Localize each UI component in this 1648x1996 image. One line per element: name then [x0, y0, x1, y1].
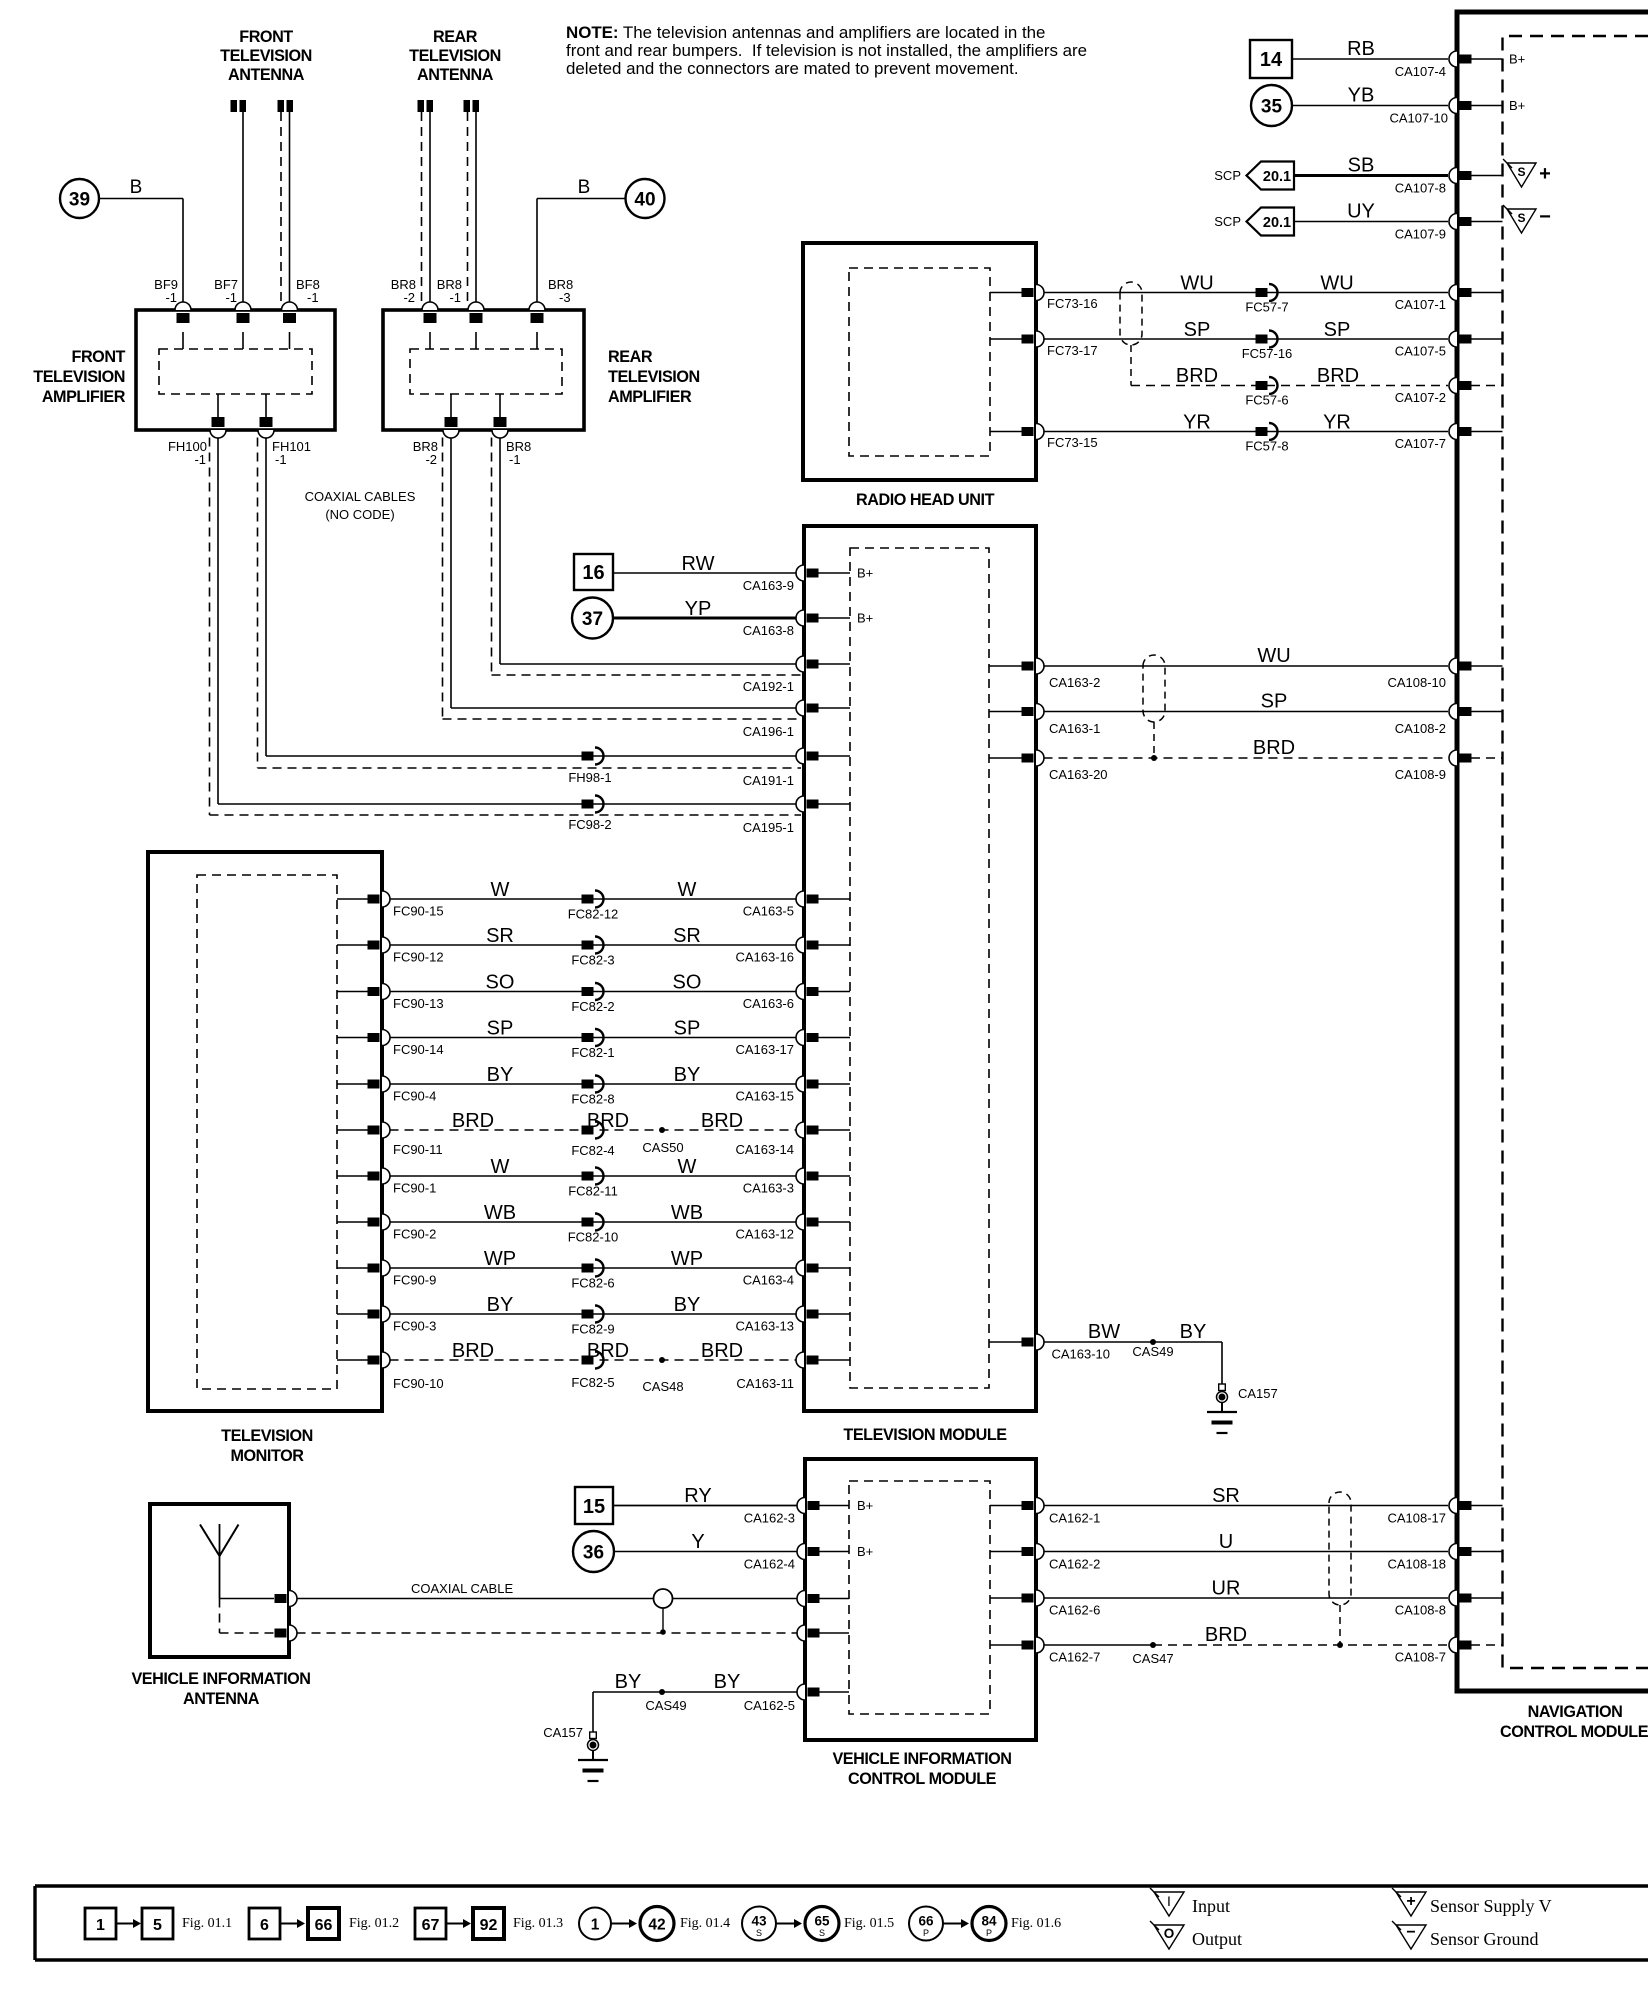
- source square 15: [575, 1487, 613, 1524]
- legend arrow 2: [280, 1923, 298, 1925]
- svg-text:CA163-4: CA163-4: [743, 1273, 794, 1288]
- svg-text:P: P: [923, 1928, 929, 1938]
- wire UR to nav: [1044, 1597, 1449, 1599]
- wire BRD FC90-11 to CA163-14: [390, 1129, 797, 1131]
- svg-text:CA162-7: CA162-7: [1049, 1650, 1100, 1665]
- pin CA196-1: [796, 700, 804, 716]
- connector FC82-8: [582, 1080, 594, 1089]
- pin CA163-12: [796, 1214, 804, 1230]
- svg-text:BRD: BRD: [1317, 365, 1359, 387]
- svg-text:RB: RB: [1347, 38, 1375, 60]
- pin FC90-1: [337, 1175, 369, 1177]
- pin CA163-8: [796, 610, 804, 626]
- svg-text:WB: WB: [671, 1202, 703, 1224]
- pin BR8-2 top: [422, 302, 438, 310]
- legend circle 42: [640, 1907, 674, 1941]
- svg-text:B: B: [130, 177, 143, 198]
- legend circle 66 P: [909, 1907, 943, 1941]
- svg-text:WU: WU: [1320, 273, 1353, 295]
- source circle 36: [573, 1531, 614, 1572]
- pin FC90-4: [337, 1083, 369, 1085]
- svg-text:SP: SP: [1184, 319, 1211, 341]
- wire RW: [613, 572, 797, 574]
- svg-text:CA108-2: CA108-2: [1395, 721, 1446, 736]
- svg-text:CONTROL MODULE: CONTROL MODULE: [1500, 1723, 1648, 1741]
- svg-text:CA163-15: CA163-15: [735, 1089, 794, 1104]
- navigation pin at y=175.5: [1449, 168, 1457, 184]
- svg-text:BRD: BRD: [452, 1340, 494, 1362]
- svg-text:BRD: BRD: [1205, 1624, 1247, 1646]
- svg-text:5: 5: [153, 1917, 162, 1934]
- svg-text:(NO CODE): (NO CODE): [325, 507, 394, 522]
- svg-text:I: I: [1167, 1893, 1171, 1909]
- connector FC82-9: [582, 1310, 594, 1319]
- svg-text:AMPLIFIER: AMPLIFIER: [42, 388, 126, 406]
- svg-text:CA108-7: CA108-7: [1395, 1650, 1446, 1665]
- navigation inner dashed box: [1503, 36, 1648, 1668]
- wire coax shield via (dashed): [219, 1599, 221, 1634]
- connector FC82-10: [582, 1218, 594, 1227]
- wire Y: [614, 1551, 797, 1553]
- wire rear antenna coax 2 center: [475, 112, 477, 303]
- svg-text:37: 37: [582, 609, 603, 630]
- svg-text:BRD: BRD: [701, 1110, 743, 1132]
- antenna symbol: [219, 1524, 221, 1599]
- pin CA162-4: [797, 1544, 805, 1560]
- svg-text:CA163-2: CA163-2: [1049, 675, 1100, 690]
- svg-text:FC90-2: FC90-2: [393, 1227, 436, 1242]
- svg-text:S: S: [819, 1928, 825, 1938]
- svg-text:CA163-1: CA163-1: [1049, 721, 1100, 736]
- svg-text:FC90-9: FC90-9: [393, 1273, 436, 1288]
- wire W FC90-1 to CA163-3: [390, 1175, 797, 1177]
- wire SP to nav: [1044, 711, 1449, 713]
- shield vicm twisted pair: [1329, 1492, 1351, 1605]
- svg-text:NAVIGATION: NAVIGATION: [1528, 1703, 1623, 1721]
- svg-text:-1: -1: [275, 452, 287, 467]
- source circle 35: [1251, 85, 1292, 126]
- legend square 1: [85, 1908, 116, 1939]
- pin vicm coax center: [797, 1591, 805, 1607]
- source square 14: [1250, 40, 1292, 78]
- wire B from 40 to BR8-3: [537, 198, 626, 200]
- svg-text:MONITOR: MONITOR: [231, 1447, 305, 1465]
- wire UY: [1294, 221, 1448, 223]
- pin CA195-1: [796, 796, 804, 812]
- svg-text:CAS50: CAS50: [642, 1140, 683, 1155]
- svg-text:WP: WP: [671, 1248, 703, 1270]
- pin CA162-3: [797, 1498, 805, 1514]
- vehicle information control module box: [805, 1459, 1036, 1740]
- svg-text:+: +: [1406, 1893, 1415, 1910]
- svg-text:ANTENNA: ANTENNA: [417, 66, 494, 84]
- svg-text:FC90-4: FC90-4: [393, 1089, 436, 1104]
- svg-text:FC82-1: FC82-1: [571, 1045, 614, 1060]
- svg-text:43: 43: [751, 1914, 767, 1929]
- svg-text:92: 92: [480, 1917, 498, 1934]
- svg-text:SP: SP: [487, 1018, 514, 1040]
- svg-text:15: 15: [583, 1496, 605, 1518]
- connector FC82-11: [582, 1172, 594, 1181]
- pin BR8-1 top: [468, 302, 484, 310]
- svg-text:TELEVISION: TELEVISION: [221, 1427, 313, 1445]
- svg-text:BY: BY: [674, 1294, 701, 1316]
- svg-text:CA163-20: CA163-20: [1049, 767, 1108, 782]
- wire RB: [1292, 58, 1448, 60]
- pin CA163-2: [989, 665, 1022, 667]
- connector FC82-1: [582, 1033, 594, 1042]
- svg-text:W: W: [678, 1156, 697, 1178]
- label front television antenna: [220, 28, 312, 84]
- svg-text:-1: -1: [194, 452, 206, 467]
- svg-text:FC82-8: FC82-8: [571, 1092, 614, 1107]
- pin BF7-1: [235, 302, 251, 310]
- svg-text:W: W: [678, 879, 697, 901]
- pin CA163-9: [796, 565, 804, 581]
- svg-text:B: B: [578, 177, 591, 198]
- wire coaxial cable center: [297, 1598, 797, 1600]
- navigation pin at y=711.5: [1449, 704, 1457, 720]
- svg-text:6: 6: [260, 1917, 269, 1934]
- svg-text:BRD: BRD: [1253, 737, 1295, 759]
- pin CA163-6: [796, 984, 804, 1000]
- svg-text:TELEVISION MODULE: TELEVISION MODULE: [843, 1426, 1007, 1444]
- svg-text:B+: B+: [857, 1498, 873, 1513]
- scp arrow 20.1 first: [1247, 162, 1295, 190]
- television module inner dashed box: [850, 548, 989, 1388]
- pin CA163-16: [796, 937, 804, 953]
- wire BW BY to ground: [1044, 1341, 1223, 1343]
- svg-text:14: 14: [1260, 49, 1283, 71]
- svg-text:B+: B+: [857, 1544, 873, 1559]
- svg-text:CA163-12: CA163-12: [735, 1227, 794, 1242]
- connector FC82-2: [582, 987, 594, 996]
- connector FC57-7: [1256, 288, 1268, 297]
- svg-text:P: P: [986, 1928, 992, 1938]
- via pin coax shield: [289, 1625, 297, 1641]
- pin FC73-16: [990, 292, 1022, 294]
- svg-text:1: 1: [96, 1917, 105, 1934]
- front television amplifier box: [136, 310, 335, 430]
- source square 16: [574, 554, 613, 590]
- svg-text:CA107-2: CA107-2: [1395, 390, 1446, 405]
- svg-text:BY: BY: [674, 1064, 701, 1086]
- svg-text:CA196-1: CA196-1: [743, 724, 794, 739]
- legend circle 65 S: [805, 1907, 839, 1941]
- legend circle 84 P: [972, 1907, 1006, 1941]
- wire WP FC90-9 to CA163-4: [390, 1267, 797, 1269]
- pin BR8-3 top: [529, 302, 545, 310]
- svg-text:65: 65: [814, 1914, 830, 1929]
- svg-text:FC90-11: FC90-11: [393, 1142, 443, 1157]
- svg-text:UY: UY: [1347, 201, 1375, 223]
- pin CA163-13: [796, 1306, 804, 1322]
- svg-text:CA163-9: CA163-9: [743, 578, 794, 593]
- svg-text:FC82-2: FC82-2: [571, 999, 614, 1014]
- splice CAS48: [659, 1357, 665, 1363]
- svg-text:−: −: [1539, 206, 1551, 228]
- svg-text:O: O: [1164, 1926, 1175, 1941]
- svg-text:CAS49: CAS49: [645, 1698, 686, 1713]
- radio head unit box: [803, 243, 1036, 480]
- legend arrow 4: [611, 1923, 630, 1925]
- svg-text:16: 16: [582, 562, 604, 584]
- svg-text:CA108-18: CA108-18: [1387, 1557, 1446, 1572]
- svg-text:S: S: [756, 1928, 762, 1938]
- svg-text:FC57-6: FC57-6: [1245, 393, 1288, 408]
- connector FC82-4: [582, 1126, 594, 1135]
- pin FC90-15: [337, 898, 369, 900]
- svg-text:20.1: 20.1: [1263, 215, 1291, 231]
- svg-text:CA163-11: CA163-11: [736, 1376, 794, 1391]
- svg-text:S: S: [1517, 211, 1525, 225]
- svg-text:Y: Y: [691, 1531, 704, 1553]
- svg-text:TELEVISION: TELEVISION: [220, 47, 312, 65]
- connector FC82-3: [582, 941, 594, 950]
- wire BRD FC90-10 to CA163-11: [390, 1359, 797, 1361]
- svg-text:W: W: [491, 1156, 510, 1178]
- svg-text:VEHICLE INFORMATION: VEHICLE INFORMATION: [832, 1750, 1011, 1768]
- svg-text:Output: Output: [1192, 1929, 1242, 1949]
- pin FH100-1: [210, 430, 226, 438]
- wire SR to nav: [1044, 1505, 1449, 1507]
- svg-text:CA107-1: CA107-1: [1395, 297, 1446, 312]
- svg-text:-2: -2: [403, 290, 415, 305]
- splice CAS49 right: [1150, 1339, 1156, 1345]
- wire coax FH100 center: [217, 438, 219, 805]
- sensor ground symbol S-: [1507, 209, 1536, 233]
- wire rear antenna coax 2 shield (dashed): [467, 112, 469, 303]
- svg-text:REAR: REAR: [608, 348, 653, 366]
- pin CA163-5: [796, 891, 804, 907]
- svg-text:CA108-8: CA108-8: [1395, 1603, 1446, 1618]
- svg-text:CA163-17: CA163-17: [735, 1042, 794, 1057]
- note text: [566, 23, 1087, 78]
- pin CA163-11: [796, 1352, 804, 1368]
- wire BRD to nav vicm: [1044, 1644, 1154, 1646]
- svg-text:FRONT: FRONT: [72, 348, 126, 366]
- wire WU radio: [1044, 292, 1449, 294]
- svg-text:SB: SB: [1348, 155, 1375, 177]
- connector FC57-6: [1256, 381, 1268, 390]
- pin FC90-3: [337, 1313, 369, 1315]
- svg-text:-1: -1: [165, 290, 177, 305]
- legend sensor supply symbol: [1396, 1892, 1426, 1916]
- svg-text:front and rear bumpers. If te: front and rear bumpers. If television is…: [566, 41, 1087, 60]
- svg-text:CONTROL MODULE: CONTROL MODULE: [848, 1770, 997, 1788]
- svg-text:CA163-6: CA163-6: [743, 996, 794, 1011]
- legend sensor ground symbol: [1396, 1925, 1426, 1949]
- wire WB FC90-2 to CA163-12: [390, 1221, 797, 1223]
- pin vicm coax shield: [797, 1625, 805, 1641]
- svg-text:36: 36: [583, 1543, 604, 1564]
- svg-text:CA108-10: CA108-10: [1387, 675, 1446, 690]
- svg-text:SR: SR: [673, 925, 701, 947]
- svg-text:-1: -1: [449, 290, 461, 305]
- connector FH98-1: [582, 752, 594, 761]
- front television amplifier inner dashed box: [159, 349, 312, 394]
- legend square 67: [415, 1908, 446, 1939]
- svg-text:-1: -1: [307, 290, 319, 305]
- svg-text:REAR: REAR: [433, 28, 478, 46]
- legend output symbol: [1154, 1925, 1184, 1949]
- svg-text:66: 66: [918, 1914, 934, 1929]
- pin FC90-2: [337, 1221, 369, 1223]
- svg-text:TELEVISION: TELEVISION: [409, 47, 501, 65]
- svg-text:CA163-3: CA163-3: [743, 1181, 794, 1196]
- svg-text:Fig. 01.1: Fig. 01.1: [182, 1916, 232, 1931]
- svg-text:FC82-6: FC82-6: [571, 1276, 614, 1291]
- rear antenna terminal squares: [418, 100, 480, 112]
- svg-text:TELEVISION: TELEVISION: [608, 368, 700, 386]
- svg-text:FC90-13: FC90-13: [393, 996, 444, 1011]
- svg-text:Fig. 01.5: Fig. 01.5: [844, 1916, 894, 1931]
- wire front antenna coax 2 center: [289, 112, 291, 303]
- svg-text:BRD: BRD: [587, 1110, 629, 1132]
- pin CA191-1: [796, 748, 804, 764]
- svg-text:NOTE: The television antennas: NOTE: The television antennas and amplif…: [566, 23, 1045, 42]
- wire coax center via: [220, 1598, 275, 1600]
- navigation pin at y=292.5: [1449, 285, 1457, 301]
- svg-text:U: U: [1219, 1531, 1233, 1553]
- svg-text:BRD: BRD: [701, 1340, 743, 1362]
- svg-text:42: 42: [648, 1917, 665, 1934]
- navigation pin at y=666: [1449, 658, 1457, 674]
- connector FC57-16: [1256, 335, 1268, 344]
- wire U to nav: [1044, 1551, 1449, 1553]
- wire front antenna coax 1 (solid center): [242, 112, 244, 303]
- connector FC82-5: [582, 1356, 594, 1365]
- navigation pin at y=105.5: [1449, 98, 1457, 114]
- pin FC73-17: [990, 338, 1022, 340]
- svg-text:Sensor Supply V: Sensor Supply V: [1430, 1896, 1552, 1916]
- connector FC98-2: [582, 800, 594, 809]
- ground CA157 left: [590, 1732, 597, 1739]
- scp arrow 20.1 second: [1247, 208, 1295, 236]
- pin FC90-14: [337, 1037, 369, 1039]
- navigation pin at y=1551.5: [1449, 1544, 1457, 1560]
- svg-text:FC82-10: FC82-10: [568, 1230, 619, 1245]
- svg-text:WU: WU: [1180, 273, 1213, 295]
- legend square 5: [142, 1908, 173, 1939]
- wire BY to CA162-5: [593, 1691, 797, 1693]
- svg-text:RADIO HEAD UNIT: RADIO HEAD UNIT: [856, 491, 995, 509]
- pin CA162-7: [990, 1644, 1022, 1646]
- svg-text:B+: B+: [857, 611, 873, 626]
- wire coax BR8-1 shield (dashed): [491, 438, 493, 676]
- connector FC82-6: [582, 1264, 594, 1273]
- svg-text:Sensor Ground: Sensor Ground: [1430, 1929, 1539, 1949]
- pin FC90-10: [337, 1359, 369, 1361]
- svg-text:-3: -3: [559, 290, 571, 305]
- svg-text:Input: Input: [1192, 1896, 1230, 1916]
- svg-text:FC73-17: FC73-17: [1047, 343, 1098, 358]
- svg-text:CAS47: CAS47: [1132, 1651, 1173, 1666]
- svg-text:CA108-17: CA108-17: [1387, 1511, 1446, 1526]
- svg-text:B+: B+: [857, 566, 873, 581]
- svg-text:CA107-7: CA107-7: [1395, 436, 1446, 451]
- legend arrow 5: [776, 1923, 795, 1925]
- svg-text:TELEVISION: TELEVISION: [33, 368, 125, 386]
- svg-text:COAXIAL CABLE: COAXIAL CABLE: [411, 1581, 513, 1596]
- svg-text:BY: BY: [487, 1294, 514, 1316]
- television module box: [804, 526, 1036, 1411]
- svg-text:ANTENNA: ANTENNA: [183, 1690, 260, 1708]
- svg-text:−: −: [1406, 1924, 1415, 1941]
- sensor supply symbol S+: [1507, 163, 1536, 187]
- svg-text:B+: B+: [1509, 52, 1525, 67]
- wire coax FH100 shield (dashed): [209, 438, 211, 816]
- pin FC90-11: [337, 1129, 369, 1131]
- label rear television antenna: [409, 28, 501, 84]
- svg-text:Fig. 01.2: Fig. 01.2: [349, 1916, 399, 1931]
- wire BRD radio (dashed): [1131, 385, 1448, 387]
- svg-text:CA162-1: CA162-1: [1049, 1511, 1100, 1526]
- navigation pin at y=1645: [1449, 1637, 1457, 1653]
- navigation pin at y=385.5: [1449, 378, 1457, 394]
- pin CA163-14: [796, 1122, 804, 1138]
- front antenna terminal squares: [231, 100, 294, 112]
- svg-text:CA163-13: CA163-13: [735, 1319, 794, 1334]
- svg-text:FRONT: FRONT: [239, 28, 293, 46]
- svg-text:CAS49: CAS49: [1132, 1344, 1173, 1359]
- svg-text:FC90-15: FC90-15: [393, 904, 444, 919]
- svg-text:CA163-10: CA163-10: [1051, 1347, 1110, 1362]
- svg-text:35: 35: [1261, 97, 1283, 118]
- legend arrow 6: [943, 1923, 962, 1925]
- television monitor inner dashed box: [197, 875, 337, 1389]
- svg-text:FC82-3: FC82-3: [571, 953, 614, 968]
- svg-text:RY: RY: [684, 1485, 711, 1507]
- svg-text:CA107-10: CA107-10: [1389, 111, 1448, 126]
- svg-text:FC82-4: FC82-4: [571, 1143, 614, 1158]
- wire coax BR8-2 shield (dashed): [442, 438, 444, 720]
- svg-text:Fig. 01.6: Fig. 01.6: [1011, 1916, 1061, 1931]
- connector circle 40: [626, 179, 665, 218]
- wire B from 39 to BF9-1: [99, 198, 183, 200]
- navigation pin at y=221.5: [1449, 214, 1457, 230]
- pin FH101-1: [258, 430, 274, 438]
- wire coax BR8-2 center: [450, 438, 452, 709]
- svg-text:UR: UR: [1212, 1578, 1241, 1600]
- navigation pin at y=431.5: [1449, 424, 1457, 440]
- svg-text:+: +: [1539, 163, 1551, 185]
- svg-text:WU: WU: [1257, 645, 1290, 667]
- pin CA163-1: [989, 711, 1022, 713]
- svg-text:CA108-9: CA108-9: [1395, 767, 1446, 782]
- pin CA162-1: [990, 1505, 1022, 1507]
- wire W FC90-15 to CA163-5: [390, 898, 797, 900]
- svg-text:CA163-8: CA163-8: [743, 623, 794, 638]
- svg-text:CA157: CA157: [543, 1725, 583, 1740]
- coax inline connector circle: [654, 1589, 673, 1608]
- svg-text:FC90-3: FC90-3: [393, 1319, 436, 1334]
- legend square 6: [249, 1908, 280, 1939]
- svg-text:ANTENNA: ANTENNA: [228, 66, 305, 84]
- vicm inner dashed box: [849, 1481, 990, 1714]
- svg-text:FH98-1: FH98-1: [568, 770, 611, 785]
- svg-text:AMPLIFIER: AMPLIFIER: [608, 388, 692, 406]
- svg-text:SCP: SCP: [1214, 214, 1241, 229]
- svg-text:FC90-14: FC90-14: [393, 1042, 444, 1057]
- svg-text:SO: SO: [486, 972, 515, 994]
- svg-text:CA162-5: CA162-5: [744, 1698, 795, 1713]
- rear television amplifier box: [383, 310, 584, 430]
- svg-text:CA107-8: CA107-8: [1395, 181, 1446, 196]
- wire SR FC90-12 to CA163-16: [390, 944, 797, 946]
- svg-text:CAS48: CAS48: [642, 1379, 683, 1394]
- svg-text:BRD: BRD: [587, 1340, 629, 1362]
